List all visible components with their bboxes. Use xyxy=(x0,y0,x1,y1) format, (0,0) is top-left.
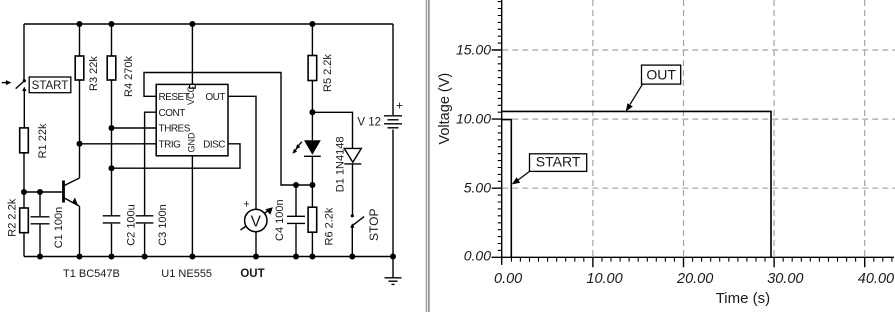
chart x-axis xyxy=(492,256,895,258)
svg-text:20.00: 20.00 xyxy=(676,271,713,287)
node R5 top rail xyxy=(309,21,315,27)
wire D1 branch xyxy=(312,112,352,148)
switch STOP xyxy=(350,209,381,257)
wire GND pin to rail xyxy=(191,156,193,257)
voltmeter V xyxy=(240,199,272,281)
svg-text:15.00: 15.00 xyxy=(456,42,491,58)
svg-text:Time (s): Time (s) xyxy=(716,290,770,307)
node R4 top rail xyxy=(109,21,115,27)
node C4 rail xyxy=(293,254,299,260)
resistor R2 xyxy=(7,192,29,257)
node DISC link junction xyxy=(109,165,115,171)
wire collector riser xyxy=(79,144,81,178)
annotation arrow OUT xyxy=(626,84,643,111)
chart x-axis minor ticks xyxy=(511,257,892,261)
node voltmeter rail xyxy=(253,254,259,260)
LED D xyxy=(292,140,320,185)
switch START xyxy=(16,79,27,128)
node R6 top xyxy=(309,182,315,188)
svg-text:5.00: 5.00 xyxy=(464,180,491,196)
diode D1 xyxy=(335,137,362,215)
svg-text:OUT: OUT xyxy=(205,92,225,103)
wire battery drop xyxy=(392,24,394,115)
svg-text:T1 BC547B: T1 BC547B xyxy=(63,268,120,280)
wire THRES xyxy=(112,127,157,129)
svg-text:10.00: 10.00 xyxy=(586,271,622,287)
label box START xyxy=(29,77,71,93)
node THRES junction xyxy=(109,125,115,131)
capacitor C2 xyxy=(103,204,138,256)
node STOP rail xyxy=(349,254,355,260)
wire top rail xyxy=(24,23,393,25)
svg-text:DISC: DISC xyxy=(203,139,225,150)
svg-text:START: START xyxy=(32,80,69,92)
chart y-axis xyxy=(501,0,503,265)
node C2 rail xyxy=(109,254,115,260)
capacitor C1 xyxy=(31,192,66,257)
curve START trace xyxy=(502,120,511,258)
svg-text:GND: GND xyxy=(187,132,197,153)
svg-text:V: V xyxy=(251,213,262,230)
chart gridlines horizontal xyxy=(502,50,895,188)
node C3 rail xyxy=(142,254,148,260)
annotation arrow START xyxy=(512,171,530,184)
wire CONT xyxy=(145,112,157,216)
ground xyxy=(385,257,402,285)
svg-text:D1 1N4148: D1 1N4148 xyxy=(335,137,347,193)
node R6 rail xyxy=(309,254,315,260)
wire TRIG xyxy=(80,143,157,145)
wire emitter to rail xyxy=(79,206,81,256)
svg-text:R1 22k: R1 22k xyxy=(37,123,49,158)
node base junction xyxy=(21,189,27,195)
battery V 12 xyxy=(357,98,403,128)
svg-text:R3 22k: R3 22k xyxy=(88,56,100,91)
svg-text:C4 100n: C4 100n xyxy=(274,199,286,241)
svg-text:RESET: RESET xyxy=(159,92,190,103)
chart x-axis major ticks xyxy=(593,257,865,267)
capacitor C3 xyxy=(136,204,169,256)
node battery rail xyxy=(390,254,396,260)
node D1 branch junction xyxy=(309,109,315,115)
op-amp U1 NE555 box xyxy=(156,84,228,280)
node emitter rail xyxy=(77,254,83,260)
svg-text:40.00: 40.00 xyxy=(858,271,894,287)
wire bottom rail xyxy=(24,256,393,258)
svg-text:30.00: 30.00 xyxy=(767,271,803,287)
wire voltmeter to rail xyxy=(255,232,257,257)
svg-text:CONT: CONT xyxy=(159,108,186,119)
chart y-axis major ticks xyxy=(492,50,502,188)
svg-text:TRIG: TRIG xyxy=(159,139,182,150)
node C1 top xyxy=(37,189,43,195)
svg-text:R6 2.2k: R6 2.2k xyxy=(324,207,336,245)
resistor R6 xyxy=(308,185,335,257)
capacitor C4 xyxy=(274,185,305,257)
svg-text:C3 100n: C3 100n xyxy=(157,204,169,246)
resistor R1 xyxy=(20,123,49,158)
svg-text:VCC: VCC xyxy=(186,85,196,105)
splitter bar xyxy=(426,0,430,312)
svg-text:V 12: V 12 xyxy=(357,117,381,129)
svg-text:0.00: 0.00 xyxy=(464,247,491,263)
node R3 top rail xyxy=(77,21,83,27)
node C1 bottom rail xyxy=(37,254,43,260)
wire R1 to base node xyxy=(23,153,25,192)
wire DISC link xyxy=(112,144,241,168)
svg-text:U1 NE555: U1 NE555 xyxy=(161,268,212,280)
transistor T1 xyxy=(63,178,120,280)
resistor R4 xyxy=(107,24,135,216)
svg-text:Voltage (V): Voltage (V) xyxy=(437,73,453,145)
svg-text:C2 100u: C2 100u xyxy=(126,204,138,246)
annotation box OUT xyxy=(642,65,681,84)
node TRIG junction xyxy=(77,141,83,147)
svg-text:+: + xyxy=(396,98,403,112)
wire battery to rail xyxy=(392,130,394,257)
chart y-axis minor ticks xyxy=(498,2,502,251)
node GND rail xyxy=(189,254,195,260)
node VCC top rail xyxy=(189,21,195,27)
svg-text:10.00: 10.00 xyxy=(456,111,491,127)
wire VCC xyxy=(191,24,193,84)
resistor R3 xyxy=(75,24,100,144)
svg-text:C1 100n: C1 100n xyxy=(53,207,65,249)
wire base xyxy=(24,191,62,193)
svg-text:STOP: STOP xyxy=(367,209,381,241)
wire OUT pin to voltmeter xyxy=(228,96,256,209)
node C4 top xyxy=(293,182,299,188)
chart gridlines vertical xyxy=(593,0,865,257)
svg-text:START: START xyxy=(536,153,581,169)
switch START actuate arrow xyxy=(2,80,12,85)
svg-text:R2 2.2k: R2 2.2k xyxy=(7,198,19,236)
svg-text:0.00: 0.00 xyxy=(494,271,522,287)
svg-text:OUT: OUT xyxy=(240,268,264,280)
annotation box START xyxy=(530,153,587,171)
svg-text:+: + xyxy=(243,199,249,211)
curve OUT trace xyxy=(502,111,771,257)
svg-text:OUT: OUT xyxy=(646,66,676,82)
resistor R5 xyxy=(308,24,334,140)
svg-text:R5 2.2k: R5 2.2k xyxy=(322,54,334,92)
wire left rail top segment xyxy=(23,24,25,80)
svg-text:R4 270k: R4 270k xyxy=(123,56,135,97)
wire RESET loop xyxy=(144,73,312,186)
